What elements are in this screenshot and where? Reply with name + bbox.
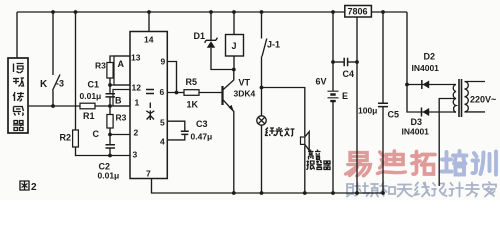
wire pin12 [110, 84, 130, 86]
svg-text:0.47μ: 0.47μ [191, 132, 213, 142]
wire secondary bottom tap [453, 111, 456, 113]
wire battery to bottom rail [332, 101, 334, 193]
relay J box [226, 35, 244, 57]
label K [40, 79, 48, 90]
contact J-1 arm [262, 39, 267, 57]
label D3 value IN4001 [402, 127, 430, 137]
svg-text:C1: C1 [88, 80, 100, 90]
resistor R2 [73, 130, 79, 147]
label R5 value 1K [187, 100, 199, 110]
wire R2 drop from rail [75, 12, 77, 130]
node lamp-rail [260, 191, 264, 195]
transistor VT base bar [221, 86, 223, 105]
wire sensor top to rail [16, 12, 18, 58]
watermark char 迪 [378, 151, 406, 174]
label 感 (sensor char 4) [14, 106, 24, 116]
wire 7806 gnd pin [356, 17, 358, 193]
wire pin2 [110, 134, 130, 136]
label 音 [315, 150, 321, 160]
wire C4 to 7806 gnd line [348, 61, 357, 63]
wire D1 bottom to collector node [211, 48, 234, 70]
svg-text:D2: D2 [424, 52, 436, 62]
label C1 value [80, 91, 102, 101]
label 100μ [358, 106, 377, 116]
node pin3 [108, 154, 112, 158]
node pin2 [108, 133, 112, 137]
watermark line2 char 线 [415, 183, 430, 197]
battery wire from rail [332, 12, 334, 91]
wire C1 to R3b [109, 97, 111, 115]
label 220V~ [470, 95, 496, 105]
svg-text:R1: R1 [83, 111, 95, 121]
regulator 7806 box [345, 6, 372, 18]
wire center tap [439, 99, 456, 187]
label C2 value [98, 171, 120, 181]
svg-text:B: B [115, 96, 122, 106]
svg-text:R2: R2 [60, 133, 72, 143]
svg-text:220V~: 220V~ [470, 95, 496, 105]
label A [118, 59, 125, 69]
node gnd-rail [355, 191, 359, 195]
svg-text:12: 12 [132, 83, 142, 93]
svg-text:3DK4: 3DK4 [234, 89, 256, 99]
node K-sensor junction [51, 104, 55, 108]
label 3DK4 [234, 89, 256, 99]
switch K arm [53, 75, 61, 91]
label pin1 [135, 98, 140, 108]
svg-text:-3: -3 [56, 79, 64, 89]
wire R3a to C1 [109, 78, 111, 93]
IC inner mark vertical glyph [146, 103, 154, 121]
label 光 [275, 127, 283, 136]
wire right-corner down to rectifier [406, 12, 408, 85]
node battery-rail [331, 191, 335, 195]
label J-1 [267, 40, 280, 50]
label pin14 [144, 35, 154, 45]
capacitor C1 [106, 94, 116, 97]
transistor VT emitter [223, 100, 234, 193]
IC inner mark = [146, 90, 154, 94]
svg-text:IN4001: IN4001 [412, 63, 440, 73]
label C1 [88, 80, 100, 90]
wire C5 to bottom rail [382, 107, 384, 193]
svg-text:R3: R3 [116, 113, 127, 123]
svg-text:0.01μ: 0.01μ [80, 91, 102, 101]
node pin12 [108, 83, 112, 87]
watermark line2 char 设 [432, 183, 447, 196]
watermark line2 char 家 [483, 182, 496, 197]
label R5 [186, 77, 198, 87]
wire secondary top tap [453, 84, 456, 86]
label E [342, 91, 348, 101]
node rail-D1 [209, 10, 213, 14]
label C3 value [191, 132, 213, 142]
WATERMARK [346, 151, 496, 197]
capacitor C4 [344, 58, 347, 67]
resistor R1 [80, 103, 95, 109]
svg-text:R3: R3 [95, 61, 106, 71]
wire C4 branch left [333, 61, 344, 63]
label 高 [308, 150, 314, 160]
svg-text:VT: VT [239, 78, 251, 88]
watermark char 训 [473, 152, 497, 175]
watermark char 易 [346, 153, 371, 177]
label pin12 [132, 83, 142, 93]
pin 14 wire [148, 12, 150, 32]
svg-text:13: 13 [131, 53, 141, 63]
wire lamp to bottom rail [261, 125, 263, 193]
label 传 (sensor char 3) [13, 92, 24, 101]
svg-text:9: 9 [161, 57, 166, 67]
wire R3b to C2 [109, 128, 111, 144]
svg-text:D1: D1 [194, 31, 206, 41]
watermark line2 char 天 [398, 185, 413, 197]
node rail-C5 [381, 10, 385, 14]
label pin4 [160, 137, 165, 147]
relay J wire top [233, 12, 235, 35]
svg-text:4: 4 [160, 137, 165, 147]
label 器 [324, 161, 331, 170]
svg-text:J-1: J-1 [267, 40, 280, 50]
svg-text:IN4001: IN4001 [402, 127, 430, 137]
label C2 [99, 162, 111, 172]
svg-text:A: A [118, 59, 125, 69]
svg-text:C5: C5 [388, 110, 400, 120]
label 报 [306, 161, 314, 170]
svg-text:7806: 7806 [348, 7, 368, 17]
node rail-J [232, 10, 236, 14]
IC body [130, 32, 167, 179]
lamp 绿光灯 symbol [257, 116, 266, 125]
svg-text:1K: 1K [187, 100, 199, 110]
wire pin6 to R5 [167, 92, 184, 94]
svg-text:E: E [342, 91, 348, 101]
svg-text:D3: D3 [411, 117, 423, 127]
label 7806 [348, 7, 368, 17]
node rail-battery [331, 10, 335, 14]
label pin5 [160, 118, 165, 128]
node rail pin14 [147, 10, 151, 14]
wire top rail [17, 11, 407, 13]
label R3a [95, 61, 106, 71]
wire primary bottom lead [465, 111, 486, 113]
label R3b [116, 113, 127, 123]
svg-text:5: 5 [160, 118, 165, 128]
label pin9 [161, 57, 166, 67]
node rectifier junction [405, 83, 409, 87]
diode D1 wire upper [210, 12, 212, 40]
label R2 [60, 133, 72, 143]
label VT [239, 78, 251, 88]
svg-text:R5: R5 [186, 77, 198, 87]
svg-text:14: 14 [144, 35, 154, 45]
label pin2 [134, 128, 139, 138]
svg-text:2: 2 [134, 128, 139, 138]
wire 7806 input from C5 [382, 12, 384, 103]
watermark char 拓 [412, 152, 435, 175]
label 器 (sensor char 5) [13, 121, 24, 131]
label C [93, 129, 100, 139]
node C5-rail [381, 191, 385, 195]
svg-text:100μ: 100μ [358, 106, 377, 116]
watermark char 培 [442, 151, 467, 175]
capacitor C2 [106, 145, 116, 148]
resistor R3a [107, 63, 113, 79]
wire pin7 to bottom rail [152, 179, 384, 194]
svg-text:6V: 6V [316, 77, 327, 87]
node bus pin1 [108, 104, 112, 108]
transformer primary winding [465, 82, 469, 112]
wire rectifier D3 row [407, 85, 453, 113]
transformer core [459, 79, 462, 117]
label 图2 [20, 181, 29, 190]
capacitor C3 [181, 131, 189, 134]
wire speaker to bottom rail [304, 146, 306, 194]
svg-text:0.01μ: 0.01μ [98, 171, 120, 181]
wire R5 to base [199, 92, 223, 94]
battery E 6V [328, 91, 339, 101]
relay J wire bottom [233, 56, 235, 70]
node rail-K [51, 10, 55, 14]
wire pin13 corner [110, 56, 130, 63]
label D2 value IN4001 [412, 63, 440, 73]
transformer secondary winding [453, 85, 456, 113]
watermark line2 char 计 [450, 183, 464, 197]
svg-text:K: K [40, 79, 48, 90]
wire speaker branch [262, 88, 305, 137]
resistor R5 [184, 90, 199, 96]
node emitter-bottom rail [232, 191, 236, 195]
wire primary top lead [465, 81, 486, 83]
wire R2 bottom to pin3 [76, 147, 131, 156]
svg-text:7: 7 [146, 169, 151, 179]
svg-text:2: 2 [31, 182, 37, 193]
watermark line2 char 和 [380, 183, 395, 197]
node lamp-speaker branch [260, 86, 264, 90]
wire C3 bracket bottom pin4 [167, 134, 185, 140]
label pin6 [160, 87, 165, 97]
label 警 [316, 161, 322, 170]
diode D2 [422, 80, 429, 89]
svg-text:3: 3 [133, 150, 138, 160]
svg-text:J: J [232, 41, 237, 51]
watermark line2 char 专 [466, 183, 480, 197]
label 6V [316, 77, 327, 87]
vibration sensor box [8, 58, 28, 133]
wire rectifier D2 row [407, 84, 453, 86]
label D2 [424, 52, 436, 62]
node rail-R2 [74, 10, 78, 14]
svg-text:C3: C3 [196, 119, 208, 129]
gate box B [113, 90, 130, 107]
resistor R3b [107, 115, 113, 129]
wire pin5 C3 bracket top [167, 121, 185, 131]
label C3 [196, 119, 208, 129]
label pin3 [133, 150, 138, 160]
wire sensor output [28, 105, 80, 107]
wire C2 to pin3 wire [109, 148, 111, 156]
label -3 [56, 79, 64, 89]
label 动 (sensor char 2) [13, 78, 24, 87]
contact J-1 wire lower [261, 57, 263, 117]
node pin6-R5 [175, 91, 179, 95]
switch K wire upper [52, 12, 54, 75]
label J [232, 41, 237, 51]
capacitor C5 [378, 103, 388, 106]
label 灯 [285, 128, 295, 137]
label D1 [194, 31, 206, 41]
speaker 高音报警器 symbol [301, 132, 310, 151]
diode D1 (zener) [205, 38, 218, 48]
node rail-J1 [260, 10, 264, 14]
node battery-C4 [331, 60, 335, 64]
label C4 [343, 69, 355, 79]
watermark line2 char 频 [363, 183, 378, 197]
svg-text:6: 6 [160, 87, 165, 97]
node collector-J [232, 68, 236, 72]
contact J-1 wire upper [261, 12, 263, 39]
diode D3 [422, 108, 430, 117]
node speaker-rail [303, 191, 307, 195]
svg-text:1: 1 [135, 98, 140, 108]
label 绿 [265, 128, 275, 137]
label pin13 [131, 53, 141, 63]
wire R1 to bus [95, 105, 130, 107]
label D3 [411, 117, 423, 127]
gate box A [114, 56, 130, 85]
svg-text:C4: C4 [343, 69, 355, 79]
transistor VT collector [223, 70, 234, 90]
label B [115, 96, 122, 106]
label C5 [388, 110, 400, 120]
node C4-gnd [355, 60, 359, 64]
label R1 [83, 111, 95, 121]
watermark line2 char 射 [347, 183, 361, 197]
switch K wire lower [52, 91, 54, 107]
label 摄 (sensor char 1) [14, 64, 24, 74]
svg-text:C: C [93, 129, 100, 139]
wire pin9 bracket [167, 62, 176, 93]
label pin7 [146, 169, 151, 179]
label 图2 number [31, 182, 37, 193]
